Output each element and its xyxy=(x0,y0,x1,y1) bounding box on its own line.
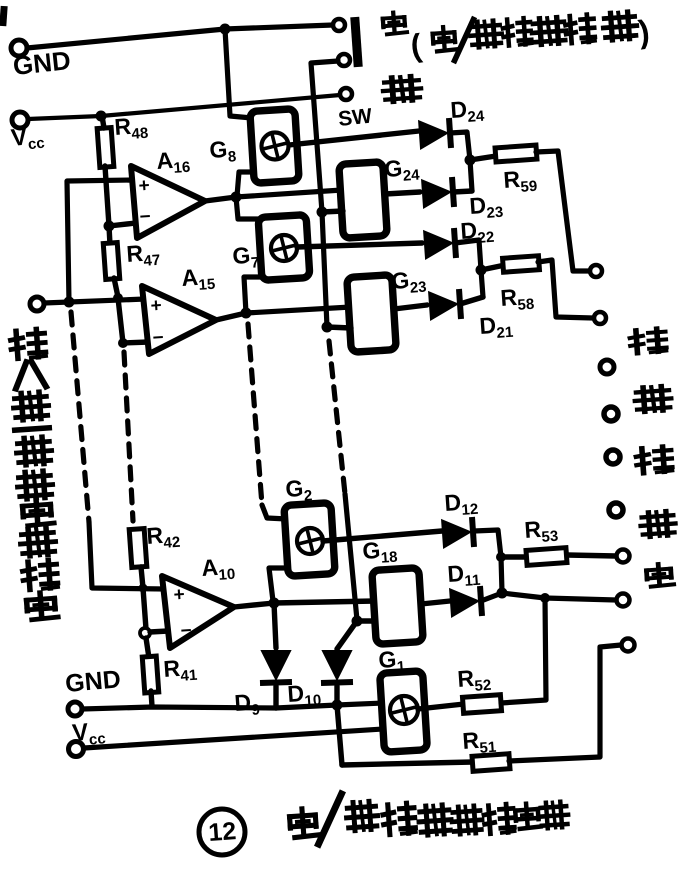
wire D10 cathode to junction xyxy=(334,686,339,704)
wire A10 out down to D9 xyxy=(274,603,276,648)
node junction on GND rail xyxy=(220,24,231,35)
wire D9 cathode to GND rail xyxy=(273,686,278,708)
gate G7 xyxy=(258,215,310,281)
resistor R51 xyxy=(472,754,510,772)
text drive 2 xyxy=(636,446,672,474)
node junction Vcc/R48 xyxy=(96,111,107,122)
label G2 xyxy=(285,474,313,506)
wire A16 inv input xyxy=(109,223,136,226)
terminal row output 5 xyxy=(606,450,620,464)
wire A10 noninv input xyxy=(89,522,165,589)
gate G24 xyxy=(339,162,387,239)
wire junction to R58 xyxy=(481,265,505,270)
wire G8 to D24 xyxy=(289,131,419,145)
wire A10 output xyxy=(234,603,274,607)
wire R48 to A16 inv xyxy=(105,166,109,226)
label G24 xyxy=(384,154,421,186)
node R52 tap xyxy=(540,593,550,603)
wire SW bus to G18 junction xyxy=(345,494,357,620)
wire SW bus dashed mid xyxy=(329,341,345,494)
label D24 xyxy=(450,95,486,127)
wire chain R48-R47 xyxy=(109,226,110,245)
label SW xyxy=(337,105,373,131)
label R48 xyxy=(114,112,149,144)
text left column: connect to 8-to-1 gating circuit output xyxy=(10,329,58,620)
text bar (strip) xyxy=(383,75,421,102)
wire D11 out to terminal xyxy=(481,593,616,601)
diode D9 xyxy=(260,651,292,683)
svg-text:−: − xyxy=(152,327,165,349)
wire R59 to terminal xyxy=(536,151,589,271)
wire SW throw1 down bus xyxy=(311,61,338,327)
diode D12 xyxy=(442,517,474,547)
label Vcc (top) xyxy=(10,122,46,155)
figure number circle 12 xyxy=(199,809,245,855)
svg-text:−: − xyxy=(180,620,193,642)
label D21 xyxy=(479,311,514,343)
terminal dot output (D11) xyxy=(617,594,630,607)
svg-text:+: + xyxy=(173,584,186,606)
diode D11 xyxy=(450,586,482,616)
label GND (bottom) xyxy=(64,665,122,698)
wire A10 out to G18 input xyxy=(274,601,375,603)
lamp symbol in G1 xyxy=(390,696,418,724)
wire Vcc rail top xyxy=(28,95,340,119)
label G1 xyxy=(378,645,406,677)
wire junction down to R51 wire xyxy=(337,705,342,765)
gate G1 xyxy=(380,671,428,752)
label R58 xyxy=(500,283,535,315)
text drive 1 xyxy=(635,385,672,412)
node D11/D12 junction xyxy=(497,588,508,599)
wire D22 cathode elbow xyxy=(455,240,483,297)
label A10 xyxy=(201,553,236,585)
wire R52 up to D11 wire xyxy=(501,598,546,703)
terminal GND (bottom) xyxy=(68,702,82,716)
label R41 xyxy=(163,654,198,686)
scan mark top-left corner xyxy=(0,6,8,26)
text dot (point) xyxy=(382,12,407,35)
wire G7 to D22 xyxy=(297,243,422,247)
wire D21 cathode stub xyxy=(460,297,483,304)
wire GND rail to G8 input xyxy=(225,29,252,118)
lamp symbol in G8 xyxy=(262,133,289,160)
wire A16 out to G24 input xyxy=(236,190,342,197)
wire A15 out to G7 bottom input xyxy=(244,277,261,313)
svg-text:−: − xyxy=(139,206,152,228)
label R47 xyxy=(126,239,161,271)
wire input bus to A15 noninv xyxy=(44,299,145,303)
node D22/D21/R58 junction xyxy=(476,265,487,276)
node D10/GND/R51 junction xyxy=(332,700,343,711)
terminal Vcc (top left) xyxy=(12,112,28,128)
terminal row output 4 xyxy=(604,407,618,421)
terminal row output 3 xyxy=(600,360,614,374)
wire junction to R59 xyxy=(470,156,496,160)
terminal SW pole xyxy=(333,19,345,31)
label R51 xyxy=(462,726,497,758)
wire GND bottom rail xyxy=(82,703,383,709)
node A16 inv tap xyxy=(104,221,115,232)
wire SW bus stub to G24 xyxy=(322,211,343,212)
node SW bus to G23 xyxy=(322,322,333,333)
wire A15 out to G23 input xyxy=(246,307,351,313)
wire R53 to terminal xyxy=(567,555,616,556)
terminal row output 6 xyxy=(609,503,623,517)
text row (hang) xyxy=(630,328,666,354)
terminal dot output (R53) xyxy=(617,550,630,563)
wire bus dashed down to A10 xyxy=(71,312,89,522)
resistor R58 xyxy=(503,256,540,272)
resistor R52 xyxy=(462,695,501,714)
resistor R42 xyxy=(129,529,147,568)
wire A15 output xyxy=(216,313,246,320)
wire A16 out to G8 bottom input xyxy=(237,172,254,196)
resistor R48 xyxy=(97,128,114,168)
node G18/D10 junction xyxy=(352,616,363,627)
wire G1 to R52 xyxy=(418,704,464,709)
diode D10 xyxy=(321,651,353,683)
node A10 output junction xyxy=(269,598,280,609)
terminal bar output xyxy=(622,639,635,652)
label D9 xyxy=(234,688,261,720)
diode D21 xyxy=(429,289,461,319)
wire SW bus stub to G23 xyxy=(327,327,351,328)
label R42 xyxy=(146,521,181,553)
label G23 xyxy=(391,266,428,298)
gate G8 xyxy=(250,109,299,184)
wire A16 out to G7 top input xyxy=(236,197,262,219)
node A10 inv tap circle xyxy=(140,628,150,638)
wire A16 output xyxy=(205,197,236,201)
label R59 xyxy=(503,165,538,197)
label R52 xyxy=(457,664,492,696)
svg-text:GND: GND xyxy=(11,45,72,81)
svg-text:GND: GND xyxy=(64,665,122,698)
node D24/D23/R59 junction xyxy=(465,155,476,166)
label A15 xyxy=(181,263,216,295)
op-amp A16 xyxy=(131,166,205,238)
terminal GND (top left) xyxy=(11,40,27,56)
wire R48 top xyxy=(102,116,104,128)
node A15 inv tap xyxy=(118,338,128,348)
node R42/A10 cross xyxy=(139,584,148,593)
wire chain to inv circle xyxy=(143,588,146,629)
wire G2 to D12 xyxy=(323,531,442,541)
node D12/R53 junction xyxy=(496,552,506,562)
diode D24 xyxy=(419,118,451,148)
wire R42 bottom xyxy=(141,567,143,588)
node A16 output junction xyxy=(231,192,242,203)
terminal row output 1 xyxy=(590,265,602,277)
label D22 xyxy=(460,216,495,248)
wire A15 inv input xyxy=(123,342,149,343)
resistor R53 xyxy=(526,548,567,566)
gate G23 xyxy=(347,275,396,353)
switch SW bar xyxy=(350,17,362,68)
label D23 xyxy=(469,191,504,223)
resistor R41 xyxy=(142,656,158,693)
wire G18 to D11 xyxy=(421,601,450,604)
svg-text:+: + xyxy=(150,295,163,317)
label GND (top) xyxy=(11,45,72,81)
gate G2 xyxy=(284,503,335,577)
wire junction stub to G18 xyxy=(357,618,376,623)
terminal row output 2 xyxy=(594,312,606,324)
wire A15 out dashed to G2 xyxy=(248,324,262,505)
wire bus up to A16 noninv xyxy=(67,180,133,302)
node A15 output junction xyxy=(241,308,252,319)
op-amp A15 xyxy=(142,286,216,354)
label R53 xyxy=(524,515,559,547)
label D10 xyxy=(287,679,322,711)
terminal Vcc (bottom) xyxy=(69,742,84,757)
wire GND rail top xyxy=(27,25,333,48)
label G18 xyxy=(362,536,399,568)
gate G18 xyxy=(372,568,423,645)
terminal signal input (left) xyxy=(30,297,44,311)
svg-text:12: 12 xyxy=(207,817,237,847)
wire D23 cathode stub xyxy=(453,191,472,192)
lamp symbol in G2 xyxy=(297,528,323,554)
wire dashed-end to G2 input xyxy=(262,505,287,519)
wire G2 stub to A10 out xyxy=(269,568,287,601)
wire junction to D10 anode xyxy=(337,621,357,649)
terminal SW throw 2 xyxy=(340,88,352,100)
label D11 xyxy=(447,559,481,591)
text caption dot/bar select switch xyxy=(408,11,651,64)
wire G23 to D21 xyxy=(394,305,427,309)
text caption: dot/bar dual-function circuit xyxy=(289,794,569,844)
wire A10 inv input xyxy=(150,631,168,632)
wire D12 cathode elbow xyxy=(474,530,502,592)
wire R47 to bus xyxy=(114,278,118,297)
wire R51 left xyxy=(342,762,473,765)
wire R58 to terminal xyxy=(538,260,593,318)
diode D23 xyxy=(422,177,454,207)
wire chain dashed to R42 xyxy=(124,352,133,521)
wire R51 to terminal xyxy=(509,645,621,761)
text output 2 (right) xyxy=(646,563,674,587)
lamp symbol in G7 xyxy=(271,235,297,261)
wire G24 to D23 xyxy=(385,192,420,194)
label A16 xyxy=(156,146,191,178)
wire chain to A15 inv xyxy=(118,298,123,343)
resistor R47 xyxy=(103,243,119,280)
node input bus junction xyxy=(64,297,75,308)
op-amp A10 xyxy=(162,576,234,648)
wire junction to R53 xyxy=(501,554,527,559)
label G7 xyxy=(232,241,260,273)
label D12 xyxy=(444,488,479,520)
label Vcc (bottom) xyxy=(71,717,106,750)
terminal SW throw 1 xyxy=(338,54,350,66)
wire Vcc bottom to G1 xyxy=(84,729,383,748)
text output 1 (right) xyxy=(640,511,676,538)
node chain/bus cross xyxy=(113,293,123,303)
wire circle to R41 xyxy=(146,638,149,658)
label G8 xyxy=(209,135,237,167)
svg-text:+: + xyxy=(138,175,151,197)
wire R41 to GND rail xyxy=(151,691,152,706)
svg-text:SW: SW xyxy=(337,105,373,131)
wire D24 cathode elbow xyxy=(450,132,472,191)
diode D22 xyxy=(424,228,456,258)
node SW bus to G24 xyxy=(317,207,328,218)
resistor R59 xyxy=(495,145,537,162)
